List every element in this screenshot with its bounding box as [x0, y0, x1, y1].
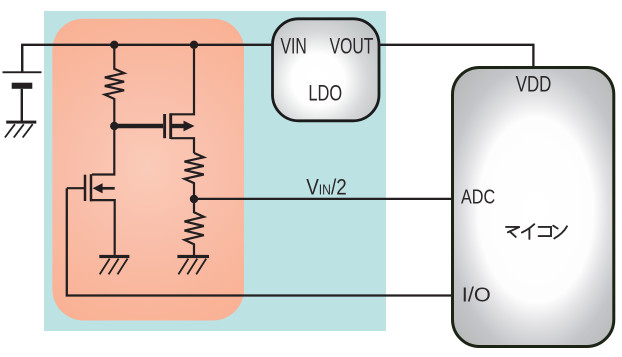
node D junction dot (divider midpoint) [190, 195, 198, 203]
svg-text:LDO: LDO [308, 81, 342, 106]
node B junction dot (Q1 drain tap) [190, 41, 198, 49]
svg-text:VOUT: VOUT [330, 34, 374, 59]
svg-text:ADC: ADC [461, 185, 495, 208]
battery B1 [3, 45, 42, 121]
transistor Q2 (NMOS) [85, 174, 115, 255]
svg-text:I/O: I/O [462, 284, 491, 306]
wire node C to Q1 gate (thick) [114, 124, 163, 128]
microcontroller U2 [453, 68, 614, 347]
wire Q2 gate to microcontroller I/O [67, 188, 453, 295]
ground (Q2 source) [99, 255, 129, 275]
wire node D to microcontroller ADC [194, 198, 453, 200]
teal background panel [44, 11, 386, 331]
resistor R1 [105, 45, 124, 126]
salmon battery-monitor region [52, 19, 244, 321]
resistor R3 [185, 199, 204, 255]
wire Q2 gate lead [67, 187, 84, 189]
resistor R2 [185, 153, 204, 199]
svg-text:VDD: VDD [516, 72, 552, 97]
label マイコン (microcontroller, katakana drawn as paths) [506, 224, 567, 239]
wire battery positive to LDO VIN [22, 45, 272, 72]
ground (R3 bottom) [177, 255, 209, 275]
node A junction dot (divider top) [110, 41, 118, 49]
node C junction dot (R1 bottom / Q1 gate / Q2 drain) [110, 122, 118, 130]
LDO regulator U1 [273, 19, 380, 121]
transistor Q1 (PMOS) [165, 49, 195, 153]
wire node C to Q2 drain [92, 126, 114, 175]
wire LDO VOUT to microcontroller VDD [379, 45, 533, 67]
ground (battery negative) [5, 121, 36, 138]
svg-text:VIN: VIN [280, 34, 306, 59]
